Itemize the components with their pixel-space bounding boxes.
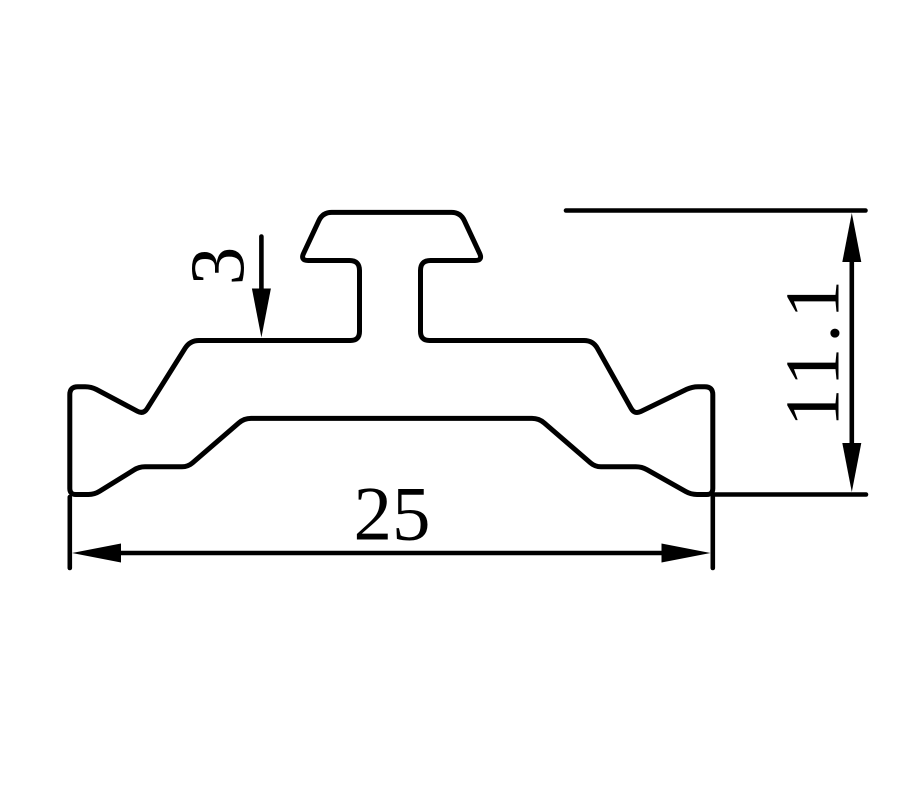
dim 11.1: top arrowhead xyxy=(842,213,861,262)
dim 25: right extension line xyxy=(710,497,715,568)
profile outline xyxy=(70,212,713,494)
dim 25: right arrowhead xyxy=(662,544,711,563)
svg-text:25: 25 xyxy=(354,471,431,557)
dim 11.1: bottom arrowhead xyxy=(842,443,861,492)
svg-text:11.1: 11.1 xyxy=(770,275,856,427)
dim 25: dimension line xyxy=(118,551,664,556)
svg-text:3: 3 xyxy=(174,247,260,286)
dim 3: dimension line xyxy=(259,237,264,296)
dim 11.1: bottom extension line xyxy=(714,492,866,497)
dim 11.1: top extension line xyxy=(566,208,866,213)
dim 3: arrowhead xyxy=(252,289,271,338)
dim 25: left extension line xyxy=(68,497,73,568)
dim 25: left arrowhead xyxy=(72,544,121,563)
dim 11.1: dimension line xyxy=(849,258,854,447)
